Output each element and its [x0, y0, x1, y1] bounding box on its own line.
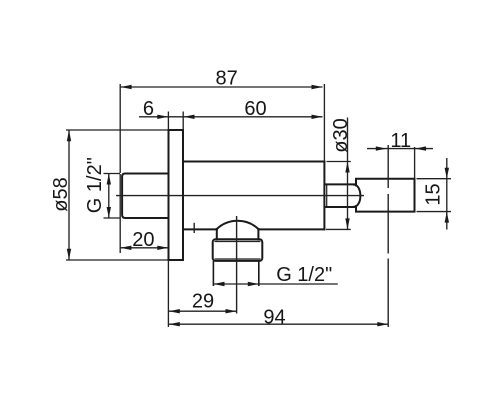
dim 20 right arrow [157, 246, 168, 250]
dim 11 line [367, 148, 433, 150]
dim o58 line [68, 130, 70, 259]
dim 94 left arrow [169, 322, 180, 326]
ball end arc [354, 185, 360, 207]
dim o58 bottom arrow [67, 249, 71, 260]
horizontal centerline [116, 195, 364, 197]
bottom outlet centerline [236, 216, 238, 314]
dim 94 right arrow [377, 322, 388, 326]
extension line x=120 above pipe [119, 84, 121, 173]
dim 29 left arrow [169, 309, 180, 313]
extension line x=414.6 above spigot [414, 147, 416, 179]
svg-text:G 1/2": G 1/2" [84, 157, 106, 213]
svg-text:11: 11 [390, 130, 411, 152]
dim 87 right arrow [312, 85, 323, 89]
body bottom line right of dome [258, 228, 324, 230]
neck joint line [326, 184, 328, 207]
dim o30 top arrow [345, 162, 349, 173]
dim 60 right arrow [312, 115, 323, 119]
dim o58 top arrow [67, 130, 71, 141]
dim 15 bottom arrow [445, 212, 449, 223]
dome arc over bottom outlet [217, 221, 259, 229]
extension line x=183.2 above flange [182, 112, 184, 131]
body right end cap [323, 162, 325, 230]
dim 20 line [120, 247, 168, 249]
extension line x=168.4 below flange [167, 260, 169, 327]
dim 87 line [121, 86, 323, 88]
neck top line [325, 183, 354, 185]
extension line y=130 left of flange [66, 129, 169, 131]
dome left side [216, 229, 218, 239]
extension line x=120 below pipe [119, 174, 121, 253]
dim G1/2 bottom right arrow [248, 282, 259, 286]
svg-text:ø58: ø58 [50, 177, 72, 211]
body top line [183, 161, 324, 163]
extension line y=211.6 right of spigot [417, 211, 452, 213]
svg-text:94: 94 [263, 307, 285, 329]
dim G1/2 bottom left arrow [214, 282, 225, 286]
nut inner top line [215, 240, 261, 242]
extension line y=161.5 right of body [327, 161, 351, 163]
svg-text:G 1/2": G 1/2" [276, 264, 332, 286]
svg-text:60: 60 [244, 98, 266, 120]
dim 29 line [169, 310, 237, 312]
dim G1/2 bottom line with leader [214, 283, 338, 285]
dim G1/2 left top arrow [107, 174, 111, 185]
dome right side [257, 229, 259, 239]
body bottom line left of dome [183, 228, 217, 230]
bottom outlet pipe left edge [212, 261, 214, 286]
extension line y=173.5 left of pipe [104, 173, 121, 175]
extension line y=260 left of flange [66, 259, 169, 261]
svg-text:20: 20 [132, 229, 154, 251]
dim o30 bottom arrow [345, 218, 349, 229]
flange plate (side view of wall rose) [169, 130, 184, 260]
dim G1/2 left line [108, 174, 110, 219]
extension line y=229.4 right of body [326, 228, 351, 230]
dim 11 right arrow [415, 146, 426, 150]
svg-text:15: 15 [423, 183, 445, 205]
svg-text:29: 29 [192, 291, 214, 313]
dim 11 left arrow [376, 146, 387, 150]
dim 29 right arrow [226, 309, 237, 313]
nut inner bottom line [215, 258, 261, 260]
neck bottom line [325, 206, 354, 208]
svg-text:6: 6 [143, 98, 154, 120]
dim 94 line [169, 323, 388, 325]
dim 6 arrow [157, 115, 168, 119]
dim 15 line [446, 158, 448, 230]
dim G1/2 left bottom arrow [107, 207, 111, 218]
bottom outlet pipe right edge [258, 261, 260, 286]
extension line x=168.4 above flange [167, 112, 169, 131]
svg-text:87: 87 [215, 68, 237, 90]
dim 15 top arrow [445, 168, 449, 179]
extension line y=218 left of pipe [104, 217, 121, 219]
wall pipe G1/2 (left inlet) [122, 174, 168, 219]
dim 87 left arrow [121, 85, 132, 89]
svg-text:ø30: ø30 [330, 118, 352, 152]
spigot centerline (dash-dot) [387, 145, 389, 188]
extension line x=324.4 above body [323, 84, 325, 162]
nut (rounded) [213, 239, 263, 261]
spigot block (right outlet) [356, 179, 415, 212]
dim 60 left arrow [184, 115, 195, 119]
centerline tick on body bottom [193, 223, 195, 233]
dim o30 line [347, 118, 349, 230]
dim 20 left arrow [120, 246, 131, 250]
extension line y=178.7 right of spigot [417, 178, 452, 180]
dim 6/60 shared line [139, 116, 323, 118]
